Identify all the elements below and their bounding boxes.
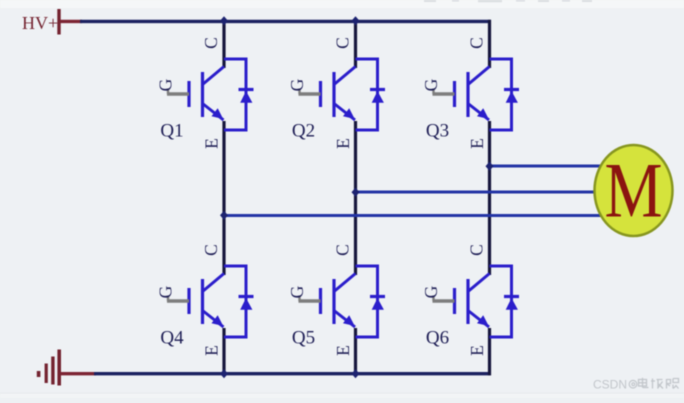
faint bottom edge band xyxy=(0,393,684,394)
gate lead pin of Q6 xyxy=(433,296,455,302)
svg-text:Q2: Q2 xyxy=(292,121,315,142)
svg-text:HV+: HV+ xyxy=(22,13,58,33)
watermark CSDN xyxy=(593,378,679,392)
svg-text:Q4: Q4 xyxy=(160,328,184,349)
wire bottom DC- rail xyxy=(94,372,491,375)
gate lead pin of Q1 xyxy=(167,89,189,95)
svg-text:Q5: Q5 xyxy=(292,328,315,349)
junction phase W node xyxy=(486,162,494,171)
transistor Q3 (IGBT) xyxy=(455,67,490,121)
freewheeling diode of Q6 xyxy=(490,266,520,337)
junction phase U node xyxy=(220,211,228,220)
gate lead pin of Q5 xyxy=(299,296,321,302)
wire red stub from HV+ xyxy=(60,20,82,23)
junction phase V node xyxy=(352,188,360,197)
wire motor phase V (from Q2/Q5 leg) xyxy=(356,191,607,194)
transistor Q1 (IGBT) xyxy=(189,67,224,121)
faint cropped text remnant top edge xyxy=(424,0,592,2)
transistor Q4 (IGBT) xyxy=(189,274,224,328)
svg-text:CSDN: CSDN xyxy=(593,378,627,392)
junction bottom rail / Q4 leg xyxy=(220,369,228,378)
svg-text:Q6: Q6 xyxy=(426,328,449,349)
svg-text:C: C xyxy=(467,244,487,256)
svg-text:G: G xyxy=(421,285,441,298)
junction top rail / Q1 leg xyxy=(220,16,228,25)
svg-text:E: E xyxy=(333,138,353,149)
svg-text:E: E xyxy=(202,138,222,149)
power terminal HV+ bar xyxy=(57,9,60,35)
svg-text:G: G xyxy=(156,78,176,91)
junction bottom rail / Q5 leg xyxy=(352,369,360,378)
freewheeling diode of Q3 xyxy=(490,59,520,130)
wire motor phase U (from Q1/Q4 leg) xyxy=(224,214,606,217)
svg-text:E: E xyxy=(467,138,487,149)
svg-text:E: E xyxy=(467,345,487,356)
wire vertical leg phase C (x=489.5) xyxy=(488,20,491,376)
svg-text:G: G xyxy=(287,78,307,91)
wire vertical leg phase A (x=224.0) xyxy=(222,20,225,376)
motor M xyxy=(595,145,673,236)
svg-text:C: C xyxy=(333,244,353,256)
svg-text:E: E xyxy=(202,345,222,356)
svg-text:G: G xyxy=(287,285,307,298)
transistor Q2 (IGBT) xyxy=(321,67,356,121)
freewheeling diode of Q1 xyxy=(224,59,254,130)
svg-text:C: C xyxy=(467,37,487,49)
svg-text:G: G xyxy=(156,285,176,298)
wire red stub from ground xyxy=(60,372,96,375)
lighter top edge band xyxy=(0,0,684,8)
wire top DC+ rail xyxy=(80,20,491,23)
svg-text:C: C xyxy=(333,37,353,49)
freewheeling diode of Q2 xyxy=(356,59,386,130)
svg-text:G: G xyxy=(421,78,441,91)
junction top rail / Q2 leg xyxy=(352,16,360,25)
freewheeling diode of Q4 xyxy=(224,266,254,337)
wire motor phase W (from Q3/Q6 leg) xyxy=(490,165,607,168)
svg-text:C: C xyxy=(201,37,221,49)
wire vertical leg phase B (x=355.5) xyxy=(354,20,357,376)
svg-text:E: E xyxy=(333,345,353,356)
svg-text:C: C xyxy=(201,244,221,256)
transistor Q5 (IGBT) xyxy=(321,274,356,328)
ground symbol xyxy=(37,350,61,386)
gate lead pin of Q4 xyxy=(167,296,189,302)
svg-text:M: M xyxy=(605,147,663,234)
gate lead pin of Q2 xyxy=(299,89,321,95)
freewheeling diode of Q5 xyxy=(356,266,386,337)
gate lead pin of Q3 xyxy=(433,89,455,95)
svg-text:Q1: Q1 xyxy=(160,121,183,142)
svg-text:Q3: Q3 xyxy=(426,121,449,142)
transistor Q6 (IGBT) xyxy=(455,274,490,328)
